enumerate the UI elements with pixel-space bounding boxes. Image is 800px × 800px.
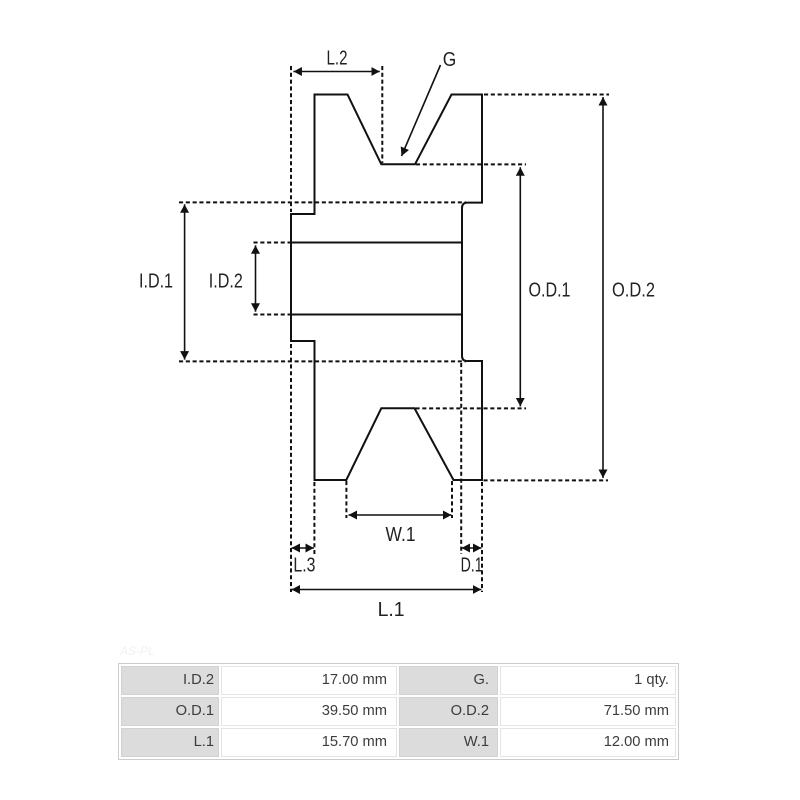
svg-text:L.1: L.1 <box>378 599 405 621</box>
svg-text:I.D.2: I.D.2 <box>209 271 243 293</box>
svg-text:D.1: D.1 <box>461 555 483 577</box>
svg-text:O.D.1: O.D.1 <box>529 279 571 301</box>
svg-text:L.3: L.3 <box>293 555 315 577</box>
svg-text:I.D.1: I.D.1 <box>139 271 173 293</box>
svg-text:L.2: L.2 <box>327 48 348 70</box>
svg-text:G: G <box>443 49 457 71</box>
svg-text:W.1: W.1 <box>386 524 416 546</box>
svg-text:O.D.2: O.D.2 <box>612 279 655 301</box>
